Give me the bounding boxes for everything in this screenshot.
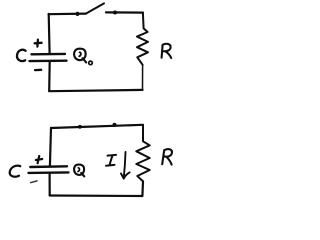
wire bottom xyxy=(50,194,143,197)
capacitor C top plate xyxy=(32,53,66,56)
node dot right xyxy=(112,123,116,127)
switch S1 (open arm) xyxy=(86,3,104,13)
wire left vertical upper xyxy=(48,14,51,54)
current arrow xyxy=(121,152,130,179)
label I xyxy=(106,155,116,166)
capacitor C2 bottom plate xyxy=(29,171,69,174)
label Q0 xyxy=(74,49,86,60)
label C xyxy=(17,50,26,61)
resistor R1 zigzag xyxy=(137,13,148,65)
wire bottom xyxy=(49,90,142,91)
wire left vertical lower xyxy=(48,173,50,195)
plus sign xyxy=(35,40,42,47)
plus sign xyxy=(36,156,42,163)
node (switch pivot dot) xyxy=(75,12,79,16)
wire left vertical upper xyxy=(50,128,51,167)
label Q xyxy=(74,165,84,175)
capacitor C2 top plate xyxy=(30,165,67,168)
label R xyxy=(162,44,172,58)
minus sign (faint) xyxy=(31,181,37,183)
node dot left xyxy=(78,125,82,129)
wire right vertical lower (light) xyxy=(142,65,144,90)
wire top xyxy=(51,125,143,128)
capacitor C bottom plate xyxy=(30,60,67,63)
node (right dot) xyxy=(113,11,117,15)
wire top-left segment xyxy=(49,13,86,16)
minus sign xyxy=(35,69,41,72)
resistor R2 zigzag xyxy=(136,125,149,181)
label C xyxy=(10,166,21,177)
wire right vertical lower xyxy=(141,181,144,196)
label R xyxy=(162,149,172,165)
wire left vertical lower xyxy=(48,61,51,91)
wire top-right segment xyxy=(106,11,143,13)
